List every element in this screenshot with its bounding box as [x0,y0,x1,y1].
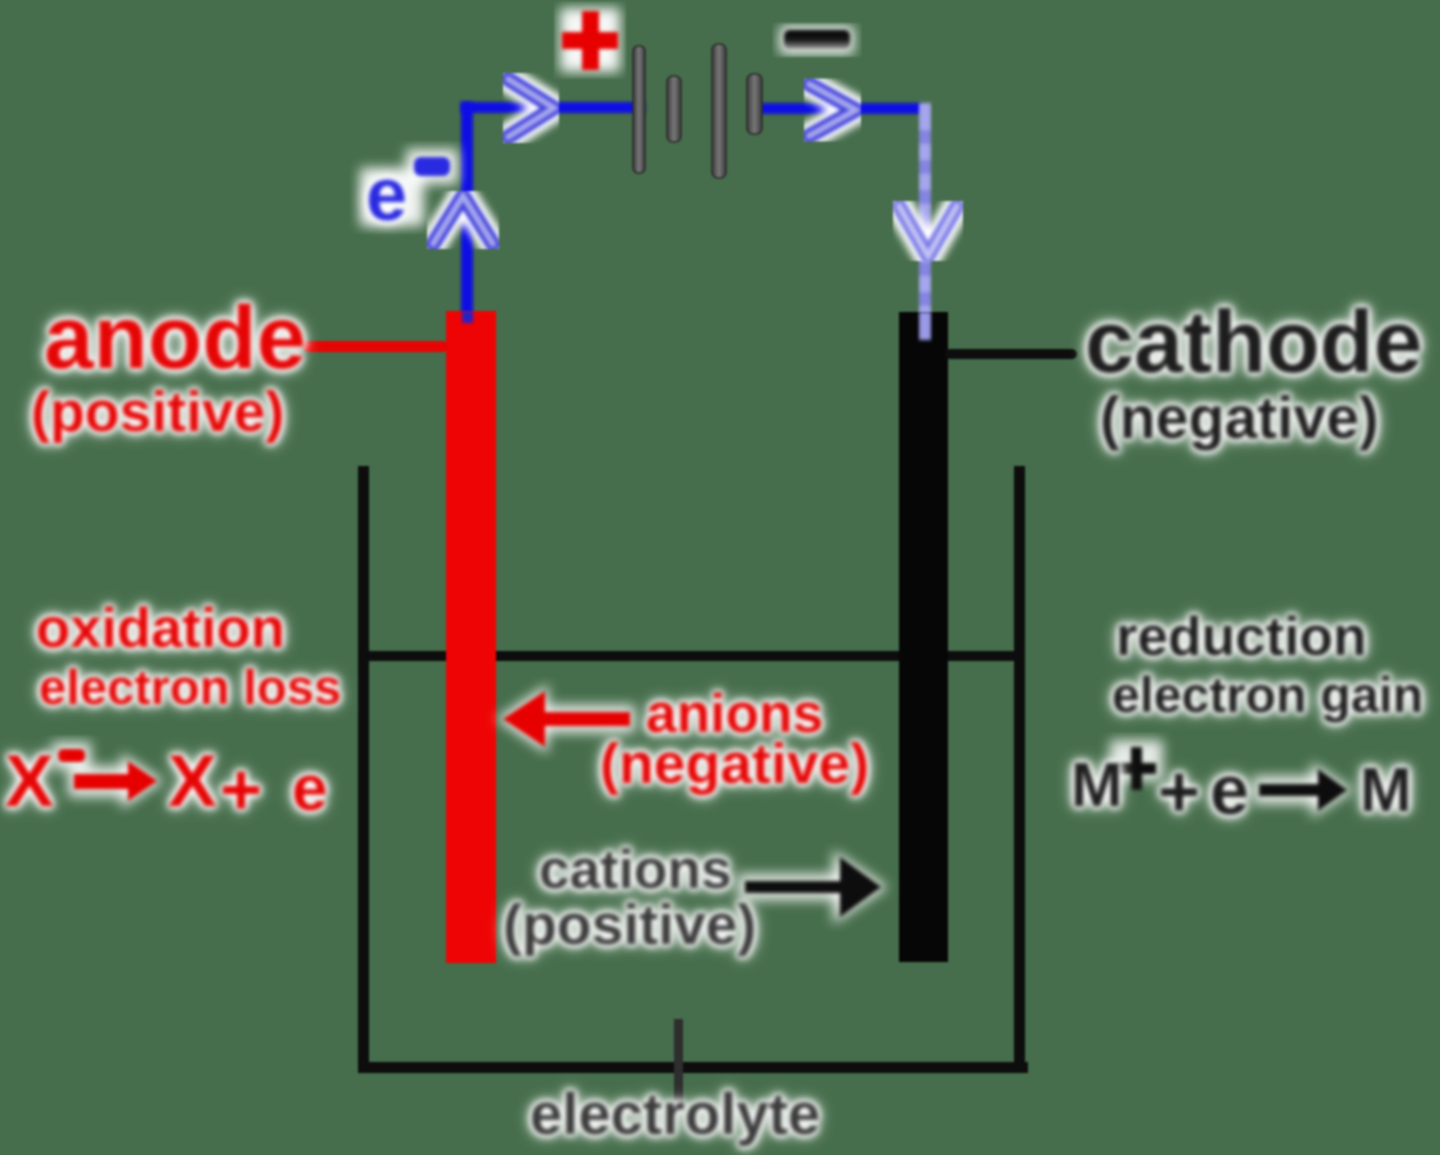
electrolyte level line [366,651,1018,661]
left equation red arrow [74,761,157,801]
electron flow arrowhead on right horizontal wire [809,84,856,136]
battery + symbol halo [560,8,620,72]
right equation black arrow [1259,769,1347,811]
label: M product in right equation [1360,760,1412,822]
label: plus in right equation [1158,756,1200,828]
anions red arrow (pointing left) [503,691,630,747]
right equation halo [1110,740,1354,818]
electron flow arrowhead halo (left horizontal) [508,79,554,137]
label: M in right equation [1071,755,1123,817]
label: X in left equation [5,745,54,818]
label: (positive) [31,384,284,441]
label: cathode [1085,298,1422,386]
label: e in right equation [1210,755,1249,825]
battery plate 1 long (+) [633,46,645,173]
wire: left horizontal blue from anode to battery + plate [461,102,645,113]
battery plate 4 short (-) [747,74,762,134]
label: electrolyte [530,1086,820,1144]
electron flow arrowhead on right vertical wire (pointing down) [899,206,957,256]
label: reduction [1116,609,1367,664]
label: plus in left equation [220,754,262,826]
electron flow arrowhead on left vertical wire (pointing up) [433,196,493,244]
electrolyte pointer line [674,1019,683,1102]
label: electron gain [1112,670,1423,720]
left equation superscript minus [58,749,85,762]
cations black arrow (pointing right) [745,857,881,917]
electron flow arrowhead halo (right horizontal) [809,84,856,136]
anions red arrow halo [496,684,635,754]
battery plate 3 long [712,44,726,178]
left equation halo [52,742,164,809]
right equation superscript plus [1117,747,1156,790]
battery - symbol (black minus) [784,30,850,49]
cathode electrode (black bar) [899,312,948,962]
label: (negative) under cathode [1100,389,1379,448]
label: (positive) under cations [503,897,756,954]
wire stub overlapping cathode top [919,312,931,340]
cations black arrow halo [738,850,888,924]
wire: left vertical blue down to anode [461,102,473,321]
label: e- (electron symbol) [366,158,407,232]
beaker left wall [358,466,369,1073]
label: cations [539,842,732,897]
label: (negative) under anions [600,736,869,793]
battery + symbol (red plus) [562,11,618,70]
beaker right wall [1014,466,1025,1073]
wire: right horizontal blue from battery - plate [750,103,922,114]
label: electron loss [39,664,341,713]
label: anode [44,293,306,382]
beaker bottom [358,1062,1028,1073]
cathode label connector line [945,349,1077,359]
electron flow arrowhead on left horizontal wire [508,79,554,137]
wire stub overlapping anode top [462,311,473,323]
anode label connector line [303,341,448,352]
label: oxidation [36,600,285,656]
anode electrode (red bar) [446,311,496,963]
label: anions [646,686,823,741]
battery plate 2 short [667,76,681,142]
wire: right vertical light blue down to cathode [919,103,931,320]
electron flow arrowhead halo (left vertical) [433,196,493,244]
e- label halo [360,149,458,226]
electron flow arrowhead halo (right vertical) [899,206,957,256]
e- label superscript minus bar [414,157,450,176]
label: X product in left equation [168,745,217,818]
label: e in left equation [292,756,328,820]
battery - symbol halo [780,26,854,54]
